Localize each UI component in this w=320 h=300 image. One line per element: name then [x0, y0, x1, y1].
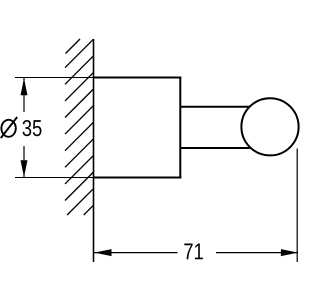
- Ø35 dimension value text: [23, 120, 42, 136]
- Ø35 dimension line upper segment: [23, 78, 25, 112]
- Ø35 arrowhead down: [21, 160, 28, 177]
- Ø35 arrowhead up: [21, 78, 28, 95]
- 71 dimension line left segment: [94, 252, 178, 254]
- flange top edge extension (thin, to Ø35 dimension): [15, 77, 94, 79]
- Ø35 dimension line lower segment: [23, 146, 25, 177]
- stem top edge: [180, 106, 250, 108]
- 71 dimension line right segment: [216, 252, 298, 254]
- flange (base cylinder) top edge: [94, 77, 182, 79]
- stem bottom edge: [180, 147, 250, 149]
- flange (base cylinder) bottom edge: [94, 177, 182, 179]
- diameter symbol slash: [1, 117, 17, 138]
- ball knob: [241, 98, 298, 155]
- flange bottom edge extension (thin, to Ø35 dimension): [15, 177, 94, 179]
- wall hatching: [65, 39, 94, 215]
- 71 arrowhead right: [281, 249, 298, 256]
- right extension line for 71 (tangent to ball): [296, 149, 298, 263]
- 71 dimension value text: [184, 243, 203, 259]
- diameter symbol circle: [1, 120, 15, 137]
- 71 arrowhead left: [94, 249, 111, 256]
- flange (base cylinder) right edge: [179, 77, 181, 179]
- wall face / mounting surface line (also left extension line for 71): [93, 39, 95, 262]
